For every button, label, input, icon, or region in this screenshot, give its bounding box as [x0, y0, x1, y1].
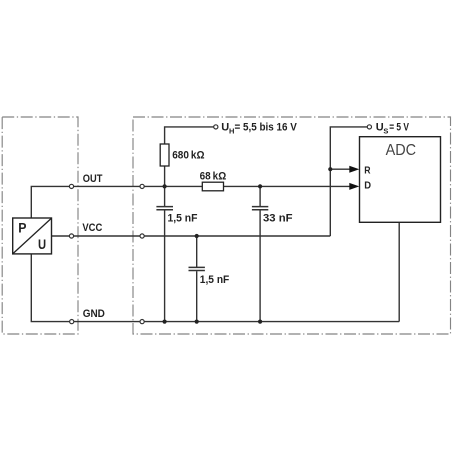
net label U_H = 5,5 bis 16 V: [221, 121, 297, 135]
svg-text:OUT: OUT: [83, 173, 103, 185]
svg-text:GND: GND: [83, 308, 105, 320]
wire VCC: terminal to vertical riser: [144, 235, 330, 237]
net label U_S = 5 V: [376, 122, 410, 136]
svg-text:1,5 nF: 1,5 nF: [168, 213, 198, 225]
node R tap: [328, 167, 332, 171]
terminal circles: [69, 125, 371, 324]
node OUT/C3: [258, 184, 262, 188]
wire capacitor C2 top lead: [196, 236, 198, 267]
svg-text:33 nF: 33 nF: [263, 213, 293, 225]
svg-text:U: U: [38, 237, 46, 252]
node GND/C1: [163, 320, 167, 324]
svg-text:D: D: [364, 180, 371, 192]
node OUT/680k/C1: [163, 184, 167, 188]
node VCC/C2: [195, 234, 199, 238]
svg-text:680 kΩ: 680 kΩ: [172, 149, 204, 161]
wire VCC riser up to US terminal: [330, 127, 367, 236]
svg-text:= 5,5 bis 16 V: = 5,5 bis 16 V: [235, 121, 298, 133]
wire ADC ground return: [398, 222, 400, 321]
wire capacitor C1 bottom lead to GND: [164, 210, 166, 321]
arrow into ADC D input: [349, 183, 359, 190]
svg-text:ADC: ADC: [386, 142, 417, 159]
sensor enclosure dashed box: [2, 117, 78, 334]
wire capacitor C3 bottom lead: [259, 210, 261, 321]
svg-text:VCC: VCC: [82, 222, 102, 234]
terminal GND ecu: [140, 320, 144, 324]
svg-text:S: S: [383, 127, 388, 136]
wire VCC: between terminals: [74, 235, 140, 237]
wire OUT: between terminals: [74, 185, 140, 187]
svg-text:= 5 V: = 5 V: [389, 122, 409, 134]
wire VCC: sensor to terminal: [52, 235, 70, 237]
junction dots: [163, 167, 333, 324]
svg-text:P: P: [18, 221, 26, 236]
ADC block U1: [360, 137, 441, 223]
terminal UH: [214, 125, 218, 129]
resistor R2 68k body: [202, 182, 223, 191]
wire capacitor C1 top lead: [164, 186, 166, 206]
wire GND: terminal to ADC return: [144, 321, 399, 323]
resistor R1 680k body: [160, 144, 169, 166]
svg-text:1,5 nF: 1,5 nF: [200, 274, 230, 286]
wire U_H branch vertical: [164, 166, 166, 186]
terminal VCC ecu: [140, 234, 144, 238]
wire R arrow line: [330, 168, 350, 170]
capacitor C3 plates (33 nF): [252, 207, 268, 210]
terminal OUT sensor: [69, 184, 73, 188]
capacitor C1 plates (1,5 nF): [156, 207, 173, 210]
svg-text:68 kΩ: 68 kΩ: [200, 171, 227, 183]
wire capacitor C2 bottom lead: [196, 271, 198, 321]
wire GND: between terminals: [74, 321, 140, 323]
node GND/C2: [195, 320, 199, 324]
svg-text:R: R: [364, 164, 371, 176]
wire capacitor C3 top lead: [259, 186, 261, 206]
terminal VCC sensor: [69, 234, 73, 238]
wire GND: sensor down and right: [31, 254, 69, 322]
ECU enclosure dashed box: [133, 117, 451, 334]
wire OUT/D: resistor R2 to ADC D arrow: [224, 185, 350, 187]
wire OUT: sensor to terminal: [31, 186, 69, 218]
terminal US: [367, 125, 371, 129]
wire 680k top to UH terminal: [165, 127, 214, 144]
sensor block P/U: [13, 218, 52, 254]
node GND/C3: [258, 320, 262, 324]
arrow into ADC R input: [349, 166, 359, 173]
capacitor C2 plates (1,5 nF): [189, 267, 205, 270]
terminal OUT ecu: [140, 184, 144, 188]
terminal GND sensor: [70, 320, 74, 324]
wire OUT: terminal to resistor R2: [144, 185, 202, 187]
